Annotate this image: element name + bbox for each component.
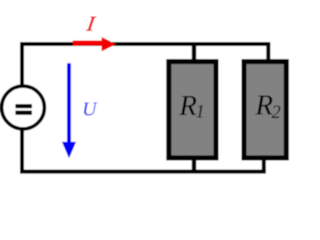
wire: top horizontal rail — [20, 42, 270, 46]
resistor R2 (box) — [244, 62, 286, 158]
wire: R2 bottom stub — [262, 158, 266, 172]
wire: bottom horizontal rail — [20, 170, 266, 174]
current arrow I (red) — [73, 37, 116, 51]
wire: R1 top stub — [192, 46, 196, 60]
label I — [84, 12, 97, 36]
voltage source U1 (circle) — [2, 86, 45, 129]
wire: R2 top stub — [266, 44, 270, 60]
voltage arrow U (blue) — [62, 63, 76, 158]
wire: R1 bottom stub — [192, 158, 196, 170]
svg-text:R: R — [178, 90, 197, 122]
wire: left vertical from top-left corner down to source top — [20, 42, 24, 85]
svg-text:2: 2 — [272, 103, 281, 123]
svg-text:U: U — [82, 99, 98, 121]
svg-text:1: 1 — [196, 103, 205, 123]
wire: left vertical from source bottom to bottom-left corner — [20, 129, 24, 172]
resistor R1 (box) — [169, 62, 216, 158]
= symbol inside source — [15, 104, 32, 108]
